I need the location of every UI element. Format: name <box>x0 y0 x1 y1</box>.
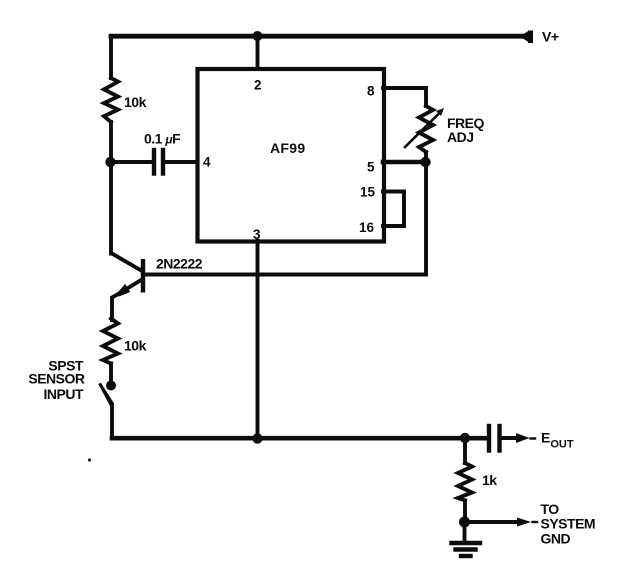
terminal arrow E OUT <box>516 433 535 443</box>
wire capacitor C1 to IC pin 4 <box>165 160 197 164</box>
svg-text:EOUT: EOUT <box>541 430 574 451</box>
wire bottom rail <box>112 436 487 441</box>
node junction dot on top rail (pin 2 tap) <box>253 31 263 41</box>
wire R2 to switch dot <box>109 364 113 382</box>
wire pin 2 to top rail <box>256 36 260 69</box>
svg-text:1k: 1k <box>482 472 497 488</box>
jumper bracket pins 15-16 <box>383 192 404 227</box>
wire resistor R1 to node A <box>109 122 113 162</box>
transistor Q1 2N2222 <box>112 254 145 321</box>
svg-text:AF99: AF99 <box>270 140 305 156</box>
node junction dot output tap <box>460 433 470 443</box>
wire node B down and left to transistor base <box>146 162 426 275</box>
wire / terminal arrow to system ground <box>465 518 538 527</box>
svg-text:5: 5 <box>367 160 375 175</box>
capacitor C2 output plates <box>489 426 500 451</box>
svg-text:4: 4 <box>203 155 211 170</box>
wire switch lower terminal to bottom rail <box>110 405 114 438</box>
svg-text:SYSTEM: SYSTEM <box>541 516 596 532</box>
wire R3 to ground node <box>463 501 467 519</box>
op-amp / IC U1 AF99 body <box>198 69 385 242</box>
wire output node to R3 <box>463 438 467 463</box>
wire top V+ rail <box>111 34 523 39</box>
svg-text:V+: V+ <box>542 29 559 45</box>
svg-text:10k: 10k <box>124 94 147 110</box>
wire collector to node A (left vertical) <box>109 162 113 254</box>
node junction dot pin3 / bottom rail <box>252 433 262 443</box>
svg-text:ADJ: ADJ <box>447 129 474 145</box>
terminal V+ arrow <box>520 31 533 44</box>
rheostat FREQ ADJ zigzag <box>419 106 433 152</box>
wire pin 5 to node B <box>383 160 426 165</box>
svg-text:INPUT: INPUT <box>44 386 84 402</box>
wire rheostat bottom to pin 5 node <box>424 152 428 162</box>
svg-text:16: 16 <box>359 220 375 235</box>
node A junction dot (R1 / C1 / collector) <box>105 157 115 167</box>
resistor R1 10k <box>104 78 118 122</box>
node ground junction dot <box>459 517 470 528</box>
svg-text:SENSOR: SENSOR <box>28 371 85 387</box>
capacitor C1 plates <box>154 150 163 174</box>
node switch terminal dot <box>106 381 116 391</box>
wire C2 to output arrow <box>501 436 517 440</box>
rheostat arrow diagonal <box>405 108 444 147</box>
node B junction dot (pin5 / rheostat) <box>420 157 430 167</box>
svg-text:GND: GND <box>541 531 571 547</box>
svg-text:0.1 μF: 0.1 μF <box>144 131 181 147</box>
wire pin 3 vertical to bottom rail <box>256 241 260 438</box>
svg-text:8: 8 <box>367 84 375 99</box>
wire node A to capacitor C1 <box>110 160 151 164</box>
resistor R2 10k <box>103 319 118 364</box>
resistor R3 1k <box>458 463 472 501</box>
svg-text:10k: 10k <box>124 338 147 354</box>
wire left vertical from rail to resistor <box>109 36 113 78</box>
svg-text:15: 15 <box>360 185 376 200</box>
svg-text:2N2222: 2N2222 <box>156 256 203 272</box>
switch S1 SPST lever <box>98 383 114 407</box>
wire pin 8 to rheostat top <box>383 88 426 106</box>
svg-text:2: 2 <box>254 78 262 93</box>
ground symbol <box>452 522 481 556</box>
speck artifact <box>88 458 91 461</box>
